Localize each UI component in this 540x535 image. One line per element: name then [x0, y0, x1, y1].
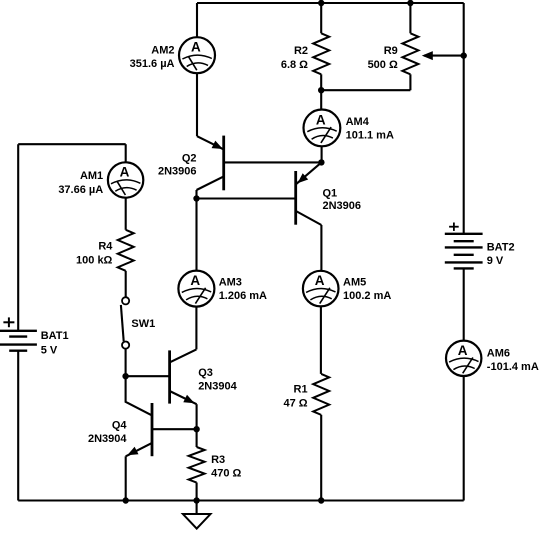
svg-text:2N3904: 2N3904	[198, 381, 237, 393]
svg-text:BAT2: BAT2	[487, 241, 515, 253]
svg-text:500 Ω: 500 Ω	[368, 59, 398, 71]
svg-text:AM3: AM3	[219, 276, 242, 288]
svg-text:470 Ω: 470 Ω	[211, 468, 241, 480]
svg-text:R1: R1	[294, 384, 308, 396]
svg-text:Q4: Q4	[112, 419, 128, 431]
svg-text:A: A	[316, 112, 326, 127]
svg-text:A: A	[191, 40, 201, 55]
svg-text:R4: R4	[98, 241, 113, 253]
svg-text:R9: R9	[384, 45, 398, 57]
svg-text:101.1 mA: 101.1 mA	[346, 130, 394, 142]
svg-text:2N3904: 2N3904	[88, 433, 127, 445]
svg-text:351.6 µA: 351.6 µA	[130, 58, 175, 70]
svg-text:Q1: Q1	[323, 188, 338, 200]
svg-text:AM1: AM1	[80, 170, 103, 182]
svg-text:2N3906: 2N3906	[158, 165, 197, 177]
svg-text:37.66 µA: 37.66 µA	[58, 184, 103, 196]
svg-text:A: A	[315, 273, 325, 288]
svg-text:-101.4 mA: -101.4 mA	[487, 361, 539, 373]
svg-text:SW1: SW1	[131, 318, 155, 330]
svg-text:2N3906: 2N3906	[323, 200, 362, 212]
svg-text:AM5: AM5	[343, 276, 366, 288]
svg-text:BAT1: BAT1	[41, 330, 69, 342]
svg-text:Q2: Q2	[182, 153, 197, 165]
svg-text:A: A	[190, 273, 200, 288]
svg-text:5 V: 5 V	[41, 344, 58, 356]
svg-text:R3: R3	[211, 454, 225, 466]
svg-text:1.206 mA: 1.206 mA	[219, 290, 267, 302]
svg-text:A: A	[120, 165, 130, 180]
svg-text:6.8 Ω: 6.8 Ω	[281, 59, 308, 71]
svg-text:47 Ω: 47 Ω	[283, 397, 307, 409]
svg-text:AM2: AM2	[151, 44, 174, 56]
svg-text:100 kΩ: 100 kΩ	[76, 255, 113, 267]
svg-text:AM6: AM6	[487, 347, 510, 359]
svg-text:AM4: AM4	[346, 116, 370, 128]
svg-text:A: A	[458, 343, 468, 358]
svg-text:9 V: 9 V	[487, 255, 504, 267]
svg-text:R2: R2	[294, 45, 308, 57]
svg-text:Q3: Q3	[198, 367, 213, 379]
svg-text:100.2 mA: 100.2 mA	[343, 290, 391, 302]
